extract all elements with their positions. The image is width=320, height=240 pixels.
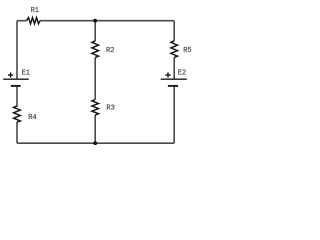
svg-text:R3: R3 [106, 104, 114, 112]
wire middle branch upper: top junction to R2 [94, 21, 96, 41]
battery E2 short plate [168, 85, 178, 87]
wire top: from R1 to top-right corner [40, 20, 174, 22]
svg-text:R1: R1 [31, 7, 39, 15]
resistor R1 [27, 18, 41, 24]
svg-text:R5: R5 [183, 47, 191, 55]
resistor R2 [92, 41, 99, 58]
wire middle branch lower: R3 to bottom junction [94, 115, 96, 143]
wire right branch mid: R5 to E2 [173, 58, 175, 79]
wire top-left: from left corner to R1 [17, 20, 27, 22]
wire left branch lower: R4 to bottom corner [16, 122, 18, 143]
wire left branch mid: E1 to R4 [16, 86, 18, 107]
wire bottom [17, 142, 174, 144]
wire right branch upper: corner to R5 [173, 21, 175, 41]
junction node top (middle/top wire) [93, 19, 97, 23]
wire left branch upper: corner down to E1 plate [16, 21, 18, 79]
svg-text:R2: R2 [106, 47, 114, 55]
resistor R3 [92, 100, 99, 115]
battery E2 plus sign [165, 72, 170, 77]
resistor R5 [171, 41, 178, 58]
resistor R4 [14, 106, 21, 122]
wire right branch lower: E2 to bottom corner [173, 86, 175, 143]
battery E1 plus sign [8, 72, 13, 77]
svg-text:R4: R4 [28, 114, 36, 122]
wire middle branch mid: R2 to R3 [94, 58, 96, 100]
battery E2 long plate [161, 78, 187, 80]
svg-text:E2: E2 [178, 70, 186, 78]
junction node bottom (middle/bottom wire) [93, 141, 97, 145]
svg-text:E1: E1 [22, 70, 30, 78]
battery E1 short plate [11, 85, 21, 87]
battery E1 long plate [3, 78, 29, 80]
